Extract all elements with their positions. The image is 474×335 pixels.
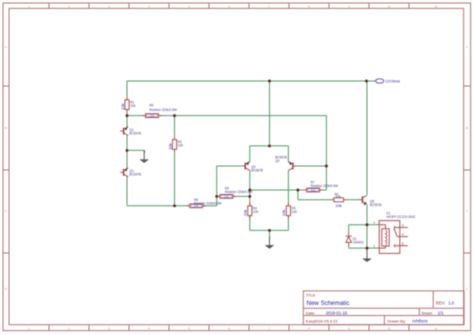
- svg-text:1.0: 1.0: [448, 300, 454, 305]
- svg-text:Resistor 220k/0.6W: Resistor 220k/0.6W: [311, 184, 338, 188]
- svg-text:10k: 10k: [120, 104, 125, 110]
- svg-text:11: 11: [434, 327, 437, 331]
- svg-text:2019-01-15: 2019-01-15: [326, 310, 348, 315]
- svg-text:REV:: REV:: [436, 300, 446, 305]
- svg-text:Resistor 220k/0.6W: Resistor 220k/0.6W: [149, 108, 176, 112]
- svg-text:Date:: Date:: [306, 310, 316, 315]
- svg-text:HK3FF-DC12V-SHG: HK3FF-DC12V-SHG: [387, 215, 416, 219]
- svg-text:10k: 10k: [335, 203, 341, 208]
- svg-text:BC557B: BC557B: [251, 169, 263, 173]
- svg-text:R6: R6: [149, 103, 153, 107]
- svg-text:Drawn By:: Drawn By:: [388, 318, 406, 323]
- svg-text:1/1: 1/1: [438, 310, 444, 315]
- svg-text:New Schematic: New Schematic: [307, 300, 350, 307]
- svg-text:A: A: [5, 45, 7, 49]
- svg-text:10k: 10k: [243, 210, 248, 216]
- svg-text:BC557B: BC557B: [370, 203, 382, 207]
- svg-text:EasyEDA V5.9.22: EasyEDA V5.9.22: [306, 318, 339, 323]
- svg-text:Resistor 220k/0.6W: Resistor 220k/0.6W: [194, 201, 221, 205]
- svg-text:B: B: [5, 126, 7, 130]
- svg-text:B: B: [466, 126, 468, 130]
- svg-text:10: 10: [387, 327, 391, 331]
- svg-text:TITLE:: TITLE:: [306, 293, 316, 297]
- svg-text:1N4001: 1N4001: [353, 240, 364, 244]
- svg-text:10k: 10k: [281, 210, 286, 216]
- svg-text:10K: 10K: [130, 104, 136, 108]
- svg-text:Q4: Q4: [275, 159, 279, 163]
- svg-text:Resistor 220k/0.6W: Resistor 220k/0.6W: [225, 190, 252, 194]
- svg-text:10K: 10K: [335, 195, 341, 199]
- svg-text:11: 11: [434, 4, 437, 8]
- svg-text:12V.90mA: 12V.90mA: [385, 79, 400, 83]
- svg-text:3: 3: [402, 224, 404, 228]
- svg-text:BC547B: BC547B: [129, 132, 141, 136]
- svg-text:BC547B: BC547B: [129, 173, 141, 177]
- svg-text:5: 5: [402, 242, 404, 246]
- svg-text:4: 4: [402, 233, 404, 237]
- svg-text:10K: 10K: [178, 144, 184, 148]
- svg-text:A: A: [466, 45, 468, 49]
- svg-text:10K: 10K: [292, 210, 298, 214]
- svg-text:10k: 10k: [167, 143, 172, 149]
- svg-text:Arhiherx: Arhiherx: [412, 318, 428, 323]
- svg-text:10: 10: [387, 4, 391, 8]
- svg-text:10K: 10K: [253, 210, 259, 214]
- svg-text:Sheet:: Sheet:: [421, 310, 433, 315]
